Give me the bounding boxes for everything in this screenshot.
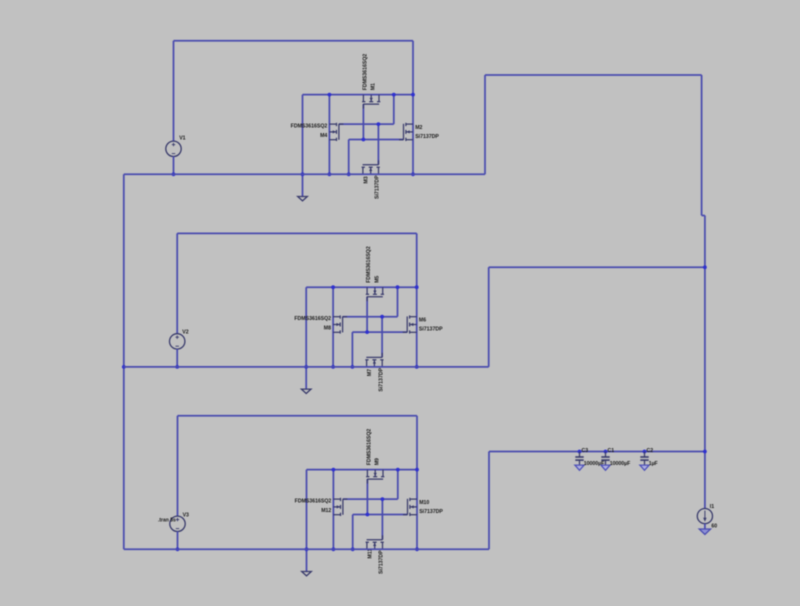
svg-text:Si7137DP: Si7137DP bbox=[379, 550, 385, 574]
svg-text:Si7137DP: Si7137DP bbox=[419, 327, 443, 333]
ground bbox=[301, 389, 311, 393]
node dot bbox=[351, 365, 355, 369]
capacitor C3 bbox=[579, 452, 581, 458]
node dot bbox=[396, 468, 400, 472]
node dot bbox=[122, 365, 126, 369]
svg-text:M8: M8 bbox=[324, 325, 331, 331]
wire bbox=[332, 287, 334, 367]
wire bbox=[412, 41, 414, 175]
wire bbox=[176, 349, 178, 367]
ground bbox=[298, 197, 308, 201]
svg-text:M5: M5 bbox=[374, 276, 380, 283]
svg-text:M4: M4 bbox=[320, 133, 327, 139]
transistor M6 bbox=[410, 316, 417, 318]
wire gate net upper bbox=[339, 123, 394, 125]
wire ground lead bbox=[306, 470, 308, 572]
wire mosfet rail block 2 bbox=[306, 286, 417, 288]
wire out1 bbox=[413, 173, 485, 175]
svg-text:FDMS3616SQ2: FDMS3616SQ2 bbox=[363, 54, 369, 91]
voltage source V3 bbox=[170, 516, 185, 531]
wire top rail block 2 bbox=[177, 232, 417, 234]
wire top rail block 1 bbox=[174, 40, 414, 42]
node dot bbox=[703, 450, 707, 454]
wire bus block1 bbox=[124, 173, 413, 175]
node dot bbox=[331, 365, 335, 369]
node dot bbox=[703, 265, 707, 269]
node dot bbox=[331, 285, 335, 289]
wire bus block2 bbox=[124, 366, 417, 368]
wire mosfet rail block 1 bbox=[303, 94, 414, 96]
voltage source V1 bbox=[166, 141, 181, 156]
wire bbox=[177, 531, 179, 549]
node dot bbox=[415, 365, 419, 369]
wire bbox=[173, 156, 175, 174]
svg-text:C3: C3 bbox=[582, 448, 589, 454]
wire main vertical bbox=[704, 216, 706, 509]
wire out2 bbox=[417, 366, 489, 368]
node dot bbox=[176, 547, 180, 551]
transistor M4 bbox=[329, 123, 336, 125]
svg-text:10000µF: 10000µF bbox=[610, 461, 631, 467]
wire bus block3 bbox=[124, 548, 417, 550]
transistor M5 bbox=[366, 287, 368, 294]
wire jog bbox=[702, 215, 705, 217]
wire left vertical bbox=[123, 174, 125, 549]
svg-text:M2: M2 bbox=[415, 125, 422, 131]
node dot bbox=[377, 122, 381, 126]
node dot bbox=[415, 285, 419, 289]
node dot bbox=[643, 450, 647, 454]
svg-text:I1: I1 bbox=[710, 504, 714, 510]
svg-text:V2: V2 bbox=[182, 330, 188, 336]
svg-text:FDMS3616SQ2: FDMS3616SQ2 bbox=[367, 429, 373, 466]
transistor M12 bbox=[333, 498, 340, 500]
wire gate net lower bbox=[349, 139, 404, 141]
svg-text:Si7137DP: Si7137DP bbox=[378, 367, 384, 391]
node dot bbox=[175, 365, 179, 369]
node dot bbox=[366, 513, 370, 517]
node dot bbox=[332, 468, 336, 472]
wire bbox=[173, 41, 175, 141]
node dot bbox=[304, 365, 308, 369]
wire bbox=[351, 332, 353, 367]
node dot bbox=[328, 93, 332, 97]
node dot bbox=[362, 138, 366, 142]
svg-text:1µF: 1µF bbox=[649, 461, 658, 467]
wire bbox=[366, 297, 368, 332]
svg-text:FDMS3616SQ2: FDMS3616SQ2 bbox=[291, 123, 328, 129]
transistor M8 bbox=[333, 316, 340, 318]
wire bbox=[352, 515, 354, 550]
svg-text:Si7137DP: Si7137DP bbox=[415, 134, 439, 140]
transistor M1 bbox=[362, 95, 364, 102]
wire bbox=[484, 75, 486, 174]
svg-text:M1: M1 bbox=[371, 83, 377, 90]
wire bbox=[489, 266, 705, 268]
wire bbox=[416, 233, 418, 367]
svg-text:M6: M6 bbox=[419, 318, 426, 324]
svg-text:M7: M7 bbox=[367, 369, 373, 376]
wire gate net lower bbox=[353, 514, 408, 516]
svg-text:V3: V3 bbox=[183, 513, 189, 519]
svg-text:M12: M12 bbox=[321, 508, 331, 514]
transistor M7 bbox=[366, 360, 368, 367]
current source I1 bbox=[697, 508, 712, 523]
node dot bbox=[347, 172, 351, 176]
wire bbox=[348, 140, 350, 175]
wire bbox=[393, 95, 395, 125]
ground bbox=[302, 572, 312, 576]
wire bbox=[366, 479, 368, 514]
wire gate net upper bbox=[343, 498, 398, 500]
wire out3 bbox=[417, 548, 489, 550]
node dot bbox=[578, 450, 582, 454]
wire bbox=[377, 124, 379, 164]
node dot bbox=[380, 315, 384, 319]
svg-text:M9: M9 bbox=[375, 458, 381, 465]
wire ground lead bbox=[302, 95, 304, 197]
wire bbox=[328, 95, 330, 175]
node dot bbox=[381, 497, 385, 501]
svg-text:M10: M10 bbox=[419, 500, 429, 506]
capacitor C1 bbox=[605, 452, 607, 458]
wire bbox=[362, 104, 364, 139]
node dot bbox=[396, 285, 400, 289]
wire bbox=[488, 267, 490, 367]
svg-text:60: 60 bbox=[711, 523, 717, 529]
wire bbox=[416, 416, 418, 550]
wire bbox=[701, 75, 703, 216]
svg-text:M3: M3 bbox=[363, 176, 369, 183]
transistor M2 bbox=[406, 123, 413, 125]
wire bbox=[485, 74, 702, 76]
node dot bbox=[351, 547, 355, 551]
svg-text:C1: C1 bbox=[608, 448, 615, 454]
node dot bbox=[365, 330, 369, 334]
node dot bbox=[604, 450, 608, 454]
node dot bbox=[411, 172, 415, 176]
wire bbox=[488, 452, 490, 550]
wire bbox=[704, 524, 706, 529]
svg-text:Si7137DP: Si7137DP bbox=[419, 509, 443, 515]
svg-text:FDMS3616SQ2: FDMS3616SQ2 bbox=[366, 246, 372, 283]
ground bbox=[699, 529, 710, 535]
node dot bbox=[392, 93, 396, 97]
svg-text:Si7137DP: Si7137DP bbox=[375, 175, 381, 199]
node dot bbox=[328, 172, 332, 176]
wire gate net upper bbox=[343, 316, 398, 318]
wire gate net lower bbox=[352, 331, 407, 333]
svg-text:FDMS3616SQ2: FDMS3616SQ2 bbox=[295, 498, 332, 504]
node dot bbox=[301, 172, 305, 176]
transistor M10 bbox=[410, 498, 417, 500]
svg-text:FDMS3616SQ2: FDMS3616SQ2 bbox=[294, 316, 331, 322]
wire bbox=[397, 470, 399, 500]
wire bbox=[177, 416, 179, 516]
svg-text:V1: V1 bbox=[179, 136, 185, 142]
wire bbox=[397, 287, 399, 317]
node dot bbox=[332, 547, 336, 551]
node dot bbox=[415, 468, 419, 472]
wire bbox=[381, 499, 383, 539]
node dot bbox=[305, 547, 309, 551]
wire top rail block 3 bbox=[178, 415, 418, 417]
wire bbox=[381, 317, 383, 357]
node dot bbox=[411, 93, 415, 97]
svg-text:C2: C2 bbox=[647, 448, 654, 454]
capacitor C2 bbox=[644, 452, 646, 458]
wire bbox=[332, 470, 334, 550]
wire bbox=[176, 233, 178, 333]
node dot bbox=[415, 547, 419, 551]
wire cap line bbox=[489, 451, 705, 453]
transistor M3 bbox=[362, 167, 364, 174]
wire ground lead bbox=[305, 287, 307, 389]
node dot bbox=[172, 172, 176, 176]
svg-text:.tran 5s: .tran 5s bbox=[158, 518, 176, 524]
wire mosfet rail block 3 bbox=[307, 469, 418, 471]
transistor M9 bbox=[366, 470, 368, 477]
voltage source V2 bbox=[170, 334, 185, 349]
transistor M11 bbox=[366, 542, 368, 549]
